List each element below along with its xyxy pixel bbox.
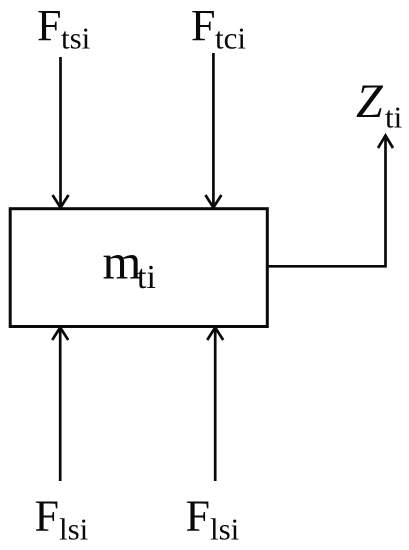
block m_ti: [10, 209, 267, 327]
label F_tci: [191, 1, 246, 56]
wire output Z_ti (from right side of block, up arrow): [267, 136, 393, 267]
svg-text:Z: Z: [356, 75, 384, 128]
wire force F_lsi right (up arrow into bottom of block): [207, 328, 223, 482]
label F_tsi: [37, 1, 91, 56]
label F_lsi (right): [186, 491, 240, 546]
label m_ti: [103, 233, 156, 296]
svg-text:F: F: [191, 1, 215, 50]
wire force F_tci (down arrow into top of block): [205, 53, 221, 208]
svg-text:tsi: tsi: [61, 21, 91, 56]
svg-text:lsi: lsi: [59, 512, 89, 547]
wire force F_tsi (down arrow into top of block): [53, 57, 69, 208]
label Z_ti: [356, 75, 403, 134]
svg-text:m: m: [103, 233, 142, 289]
wire force F_lsi left (up arrow into bottom of block): [52, 328, 68, 482]
svg-text:lsi: lsi: [210, 512, 240, 547]
svg-text:ti: ti: [385, 99, 403, 134]
svg-text:ti: ti: [137, 259, 156, 296]
label F_lsi (left): [35, 491, 89, 546]
svg-text:F: F: [186, 491, 210, 540]
svg-text:F: F: [37, 1, 61, 50]
svg-text:tci: tci: [215, 21, 246, 56]
svg-text:F: F: [35, 491, 59, 540]
